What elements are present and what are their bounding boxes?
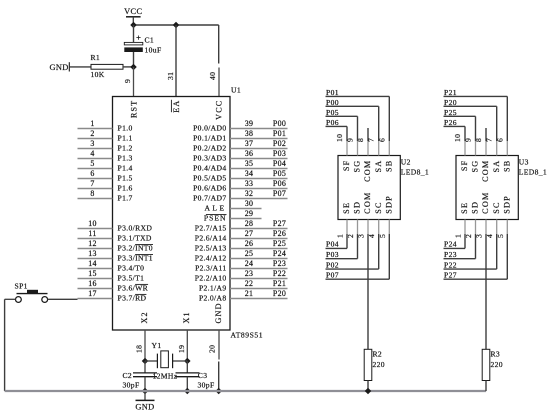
svg-text:P0.7/AD7: P0.7/AD7 [193, 194, 226, 203]
svg-text:10K: 10K [91, 70, 105, 79]
capacitor C3 [176, 372, 200, 374]
wire R1 to RST node [123, 66, 134, 68]
wire VCC rail horizontal [134, 24, 219, 26]
svg-text:37: 37 [245, 139, 254, 148]
pin 12 P3.2/INT0 lead [78, 248, 113, 250]
svg-text:36: 36 [245, 149, 254, 158]
svg-text:20: 20 [208, 345, 217, 353]
svg-text:P27: P27 [444, 270, 457, 279]
svg-text:COM: COM [363, 192, 372, 214]
7seg display U2 LED8_1 body [338, 156, 400, 220]
junction X2 node [142, 358, 149, 365]
wire COM stub top (U3) [485, 128, 487, 141]
pin lead top 6 (U2) [388, 141, 390, 156]
svg-text:P2.1/A9: P2.1/A9 [199, 284, 227, 293]
svg-text:SC: SC [492, 201, 501, 213]
wire VCC node to C1 [133, 25, 135, 42]
junction RST node [130, 64, 137, 71]
svg-text:C2: C2 [123, 371, 133, 380]
junction C3/bus [184, 388, 191, 395]
pin 15 P3.5/T1 lead [78, 278, 113, 280]
svg-text:P1.0: P1.0 [118, 124, 133, 133]
pin 26 P2.5/A13 lead [230, 248, 288, 250]
svg-text:34: 34 [245, 169, 254, 178]
svg-text:SF: SF [342, 160, 351, 172]
svg-text:P2.4/A12: P2.4/A12 [195, 254, 227, 263]
svg-text:1: 1 [336, 234, 345, 238]
pin lead bottom 1 (U2) [346, 220, 348, 235]
wire net P24 [444, 247, 466, 249]
pin 35 P0.4/AD4 lead [230, 168, 288, 170]
svg-text:GND: GND [50, 63, 69, 72]
svg-text:P0.3/AD3: P0.3/AD3 [193, 154, 226, 163]
pin lead bottom 3 (U2) [367, 220, 369, 235]
svg-text:COM: COM [363, 160, 372, 182]
pin 38 P0.1/AD1 lead [230, 138, 288, 140]
pin 39 P0.0/AD0 lead [230, 128, 288, 130]
pin 24 P2.3/A11 lead [230, 268, 288, 270]
svg-text:SD: SD [471, 201, 480, 214]
pin 32 P0.7/AD7 lead [230, 198, 288, 200]
svg-text:25: 25 [245, 249, 254, 258]
svg-text:Y1: Y1 [152, 341, 162, 350]
pin 11 P3.1/TXD lead [78, 238, 113, 240]
pin 13 P3.3/INT1 lead [78, 258, 113, 260]
svg-text:31: 31 [166, 72, 175, 80]
svg-text:4: 4 [90, 149, 94, 158]
7seg display U3 LED8_1 body [456, 156, 518, 220]
svg-text:R2: R2 [373, 350, 383, 359]
resistor R3 [482, 349, 490, 380]
pin 37 P0.2/AD2 lead [230, 148, 288, 150]
svg-text:P3.5/T1: P3.5/T1 [118, 274, 145, 283]
svg-text:P25: P25 [273, 239, 286, 248]
svg-text:19: 19 [177, 345, 186, 353]
wire COM bottom to resistor (U2) [367, 234, 369, 349]
pin 30 ALE lead [230, 208, 262, 210]
svg-text:33: 33 [245, 179, 254, 188]
pin lead bottom 5 (U3) [506, 220, 508, 235]
pin 36 P0.3/AD3 lead [230, 158, 288, 160]
pin 4 P1.3 lead [78, 158, 113, 160]
wire net P03 [326, 258, 358, 260]
svg-text:P1.5: P1.5 [118, 174, 133, 183]
pin 23 P2.2/A10 lead [230, 278, 288, 280]
svg-text:P0.0/AD0: P0.0/AD0 [193, 124, 226, 133]
svg-text:13: 13 [88, 249, 97, 258]
svg-text:23: 23 [245, 269, 254, 278]
svg-text:P1.1: P1.1 [118, 134, 133, 143]
svg-text:VCC: VCC [215, 100, 224, 120]
svg-text:SA: SA [374, 160, 383, 173]
svg-text:220: 220 [373, 360, 385, 369]
pin 2 P1.1 lead [78, 138, 113, 140]
wire X1 to C3 [186, 361, 188, 373]
pin 3 P1.2 lead [78, 148, 113, 150]
svg-text:P1.7: P1.7 [118, 194, 133, 203]
svg-text:SE: SE [460, 202, 469, 214]
svg-text:P07: P07 [273, 189, 286, 198]
svg-text:SD: SD [353, 201, 362, 214]
svg-text:P3.3/INT1: P3.3/INT1 [118, 254, 153, 263]
pin lead top 8 (U2) [367, 141, 369, 156]
svg-text:X1: X1 [182, 311, 191, 323]
svg-text:GND: GND [135, 403, 154, 412]
svg-text:COM: COM [481, 192, 490, 214]
resistor R2 [364, 349, 372, 380]
junction R2/bus [365, 388, 372, 395]
wire C1 to RST node [133, 52, 135, 67]
svg-text:LED8_1: LED8_1 [401, 167, 429, 176]
junction C2/bus [142, 388, 149, 395]
svg-text:14: 14 [88, 259, 97, 268]
pin 20 GND lead [218, 330, 220, 360]
svg-text:30pF: 30pF [198, 380, 215, 389]
pin 22 P2.1/A9 lead [230, 288, 288, 290]
pin 25 P2.4/A12 lead [230, 258, 288, 260]
wire SP1 to pin17 [48, 298, 78, 300]
svg-text:220: 220 [491, 360, 503, 369]
wire net P20 [444, 105, 497, 107]
pin lead bottom 3 (U3) [485, 220, 487, 235]
svg-text:RST: RST [129, 100, 138, 118]
wire net P02 [326, 268, 379, 270]
wire net P26 [444, 125, 466, 127]
svg-text:30pF: 30pF [123, 380, 140, 389]
pin 28 P2.7/A15 lead [230, 228, 288, 230]
pin lead bottom 2 (U3) [475, 220, 477, 235]
svg-text:P2.7/A15: P2.7/A15 [195, 224, 227, 233]
svg-text:VCC: VCC [124, 7, 142, 16]
svg-text:SG: SG [353, 160, 362, 173]
svg-text:6: 6 [90, 169, 94, 178]
pin 5 P1.4 lead [78, 168, 113, 170]
pin lead bottom 2 (U2) [357, 220, 359, 235]
wire X2 to crystal [145, 360, 157, 362]
wire VCC pin 40 vertical [218, 25, 220, 64]
svg-text:P3.2/INT0: P3.2/INT0 [118, 244, 153, 253]
svg-text:10: 10 [88, 219, 97, 228]
svg-text:P21: P21 [273, 279, 286, 288]
svg-text:P1.6: P1.6 [118, 184, 133, 193]
pin 9 RST lead [133, 67, 135, 97]
svg-text:P3.1/TXD: P3.1/TXD [118, 234, 152, 243]
pin 6 P1.5 lead [78, 178, 113, 180]
svg-text:COM: COM [481, 160, 490, 182]
svg-text:P23: P23 [444, 250, 457, 259]
svg-text:10: 10 [335, 134, 344, 142]
svg-text:P0.6/AD6: P0.6/AD6 [193, 184, 226, 193]
svg-text:32: 32 [245, 189, 254, 198]
svg-text:SB: SB [503, 160, 512, 172]
svg-text:P02: P02 [326, 260, 339, 269]
wire X2 to C2 [144, 361, 146, 373]
svg-text:P07: P07 [326, 270, 339, 279]
svg-text:P20: P20 [273, 289, 286, 298]
svg-text:40: 40 [208, 72, 217, 80]
svg-text:P1.3: P1.3 [118, 154, 133, 163]
pin 19 X1 lead [186, 330, 188, 361]
wire pin20 to ground bus [218, 362, 220, 392]
svg-text:SE: SE [342, 202, 351, 214]
svg-text:SA: SA [492, 160, 501, 173]
svg-text:8: 8 [90, 189, 94, 198]
svg-text:C3: C3 [198, 371, 208, 380]
wire crystal to X1 [173, 360, 187, 362]
pin 27 P2.6/A14 lead [230, 238, 288, 240]
svg-text:P2.2/A10: P2.2/A10 [195, 274, 227, 283]
capacitor C2 [133, 372, 157, 374]
svg-text:P24: P24 [444, 240, 457, 249]
junction at VCC/C1 node [130, 22, 137, 29]
wire net P01 [326, 95, 390, 97]
junction at EA branch [173, 22, 180, 29]
svg-text:U2: U2 [401, 157, 411, 166]
svg-text:ALE: ALE [205, 204, 227, 213]
svg-text:P2.6/A14: P2.6/A14 [195, 234, 227, 243]
wire net P00 [326, 105, 379, 107]
svg-text:35: 35 [245, 159, 254, 168]
svg-text:P3.6/WR: P3.6/WR [118, 284, 149, 293]
svg-text:39: 39 [245, 119, 254, 128]
svg-text:P27: P27 [273, 219, 286, 228]
svg-text:P22: P22 [273, 269, 286, 278]
svg-text:P2.3/A11: P2.3/A11 [195, 264, 226, 273]
svg-text:P3.7/RD: P3.7/RD [118, 294, 147, 303]
svg-text:C1: C1 [145, 36, 155, 45]
pin 17 P3.7/RD lead [78, 298, 113, 300]
svg-text:SF: SF [460, 160, 469, 172]
wire SP1 left down [5, 298, 16, 300]
wire net P23 [444, 258, 476, 260]
wire C2 to bus [144, 377, 146, 391]
svg-text:1: 1 [454, 234, 463, 238]
svg-text:P1.2: P1.2 [118, 144, 133, 153]
svg-text:P04: P04 [273, 159, 286, 168]
svg-text:P1.4: P1.4 [118, 164, 133, 173]
wire GND to R1 [69, 66, 91, 68]
svg-text:P04: P04 [326, 240, 339, 249]
svg-text:1: 1 [90, 119, 94, 128]
pin lead bottom 4 (U3) [496, 220, 498, 235]
svg-text:R3: R3 [491, 350, 501, 359]
svg-text:P2.0/A8: P2.0/A8 [199, 294, 227, 303]
pin 8 P1.7 lead [78, 198, 113, 200]
svg-text:10: 10 [453, 134, 462, 142]
pin 21 P2.0/A8 lead [230, 298, 288, 300]
pin lead top 7 (U3) [496, 141, 498, 156]
svg-text:3: 3 [90, 139, 94, 148]
svg-text:2: 2 [90, 129, 94, 138]
svg-text:LED8_1: LED8_1 [519, 167, 547, 176]
junction pin20/bus [215, 388, 222, 395]
svg-text:SC: SC [374, 201, 383, 213]
svg-text:P03: P03 [273, 149, 286, 158]
svg-text:P06: P06 [273, 179, 286, 188]
svg-text:18: 18 [135, 345, 144, 353]
ground bus wire [5, 390, 487, 392]
pin 33 P0.6/AD6 lead [230, 188, 288, 190]
pin lead bottom 1 (U3) [464, 220, 466, 235]
pin 14 P3.4/T0 lead [78, 268, 113, 270]
wire net P06 [326, 125, 348, 127]
svg-text:24: 24 [245, 259, 254, 268]
pin 34 P0.5/AD5 lead [230, 178, 288, 180]
crystal Y1 [156, 354, 158, 369]
wire R3 to bus [485, 381, 487, 392]
svg-text:15: 15 [88, 269, 97, 278]
svg-text:X2: X2 [140, 311, 149, 323]
svg-text:P02: P02 [273, 139, 286, 148]
svg-text:10uF: 10uF [145, 46, 162, 55]
svg-text:P26: P26 [273, 229, 286, 238]
svg-text:38: 38 [245, 129, 254, 138]
svg-text:U3: U3 [519, 157, 529, 166]
svg-text:22: 22 [245, 279, 254, 288]
svg-text:27: 27 [245, 229, 254, 238]
svg-text:P05: P05 [273, 169, 286, 178]
svg-text:17: 17 [88, 289, 97, 298]
svg-text:P0.2/AD2: P0.2/AD2 [193, 144, 226, 153]
svg-text:P03: P03 [326, 250, 339, 259]
wire net P22 [444, 268, 497, 270]
svg-text:R1: R1 [91, 53, 101, 62]
svg-text:29: 29 [245, 209, 254, 218]
pin lead top 10 (U2) [346, 141, 348, 156]
IC U1 AT89S51 body [113, 97, 231, 331]
pin lead top 9 (U3) [475, 141, 477, 156]
svg-text:P24: P24 [273, 249, 286, 258]
wire net P27 [444, 278, 508, 280]
svg-text:P0.1/AD1: P0.1/AD1 [193, 134, 226, 143]
svg-text:16: 16 [88, 279, 97, 288]
svg-text:P3.4/T0: P3.4/T0 [118, 264, 145, 273]
capacitor C1 10uF polarized [124, 42, 143, 45]
resistor R1 [91, 64, 123, 69]
pin lead bottom 5 (U2) [388, 220, 390, 235]
svg-text:GND: GND [214, 302, 223, 323]
svg-text:11: 11 [88, 229, 96, 238]
svg-text:12: 12 [88, 239, 97, 248]
svg-text:P22: P22 [444, 260, 457, 269]
svg-text:21: 21 [245, 289, 254, 298]
svg-text:28: 28 [245, 219, 254, 228]
wire R2 to bus [367, 381, 369, 392]
wire net P07 [326, 278, 390, 280]
svg-text:SDP: SDP [385, 195, 394, 214]
svg-text:30: 30 [245, 199, 254, 208]
svg-text:P00: P00 [273, 119, 286, 128]
svg-text:P3.0/RXD: P3.0/RXD [118, 224, 153, 233]
wire net P21 [444, 95, 508, 97]
wire net P04 [326, 247, 348, 249]
ground symbol [144, 391, 146, 400]
svg-text:9: 9 [123, 79, 132, 83]
svg-text:26: 26 [245, 239, 254, 248]
pin 1 P1.0 lead [78, 128, 113, 130]
svg-text:U1: U1 [231, 86, 241, 95]
svg-text:SB: SB [385, 160, 394, 172]
pin lead top 7 (U2) [378, 141, 380, 156]
wire COM bottom to resistor (U3) [485, 234, 487, 349]
svg-text:P0.5/AD5: P0.5/AD5 [193, 174, 226, 183]
svg-text:SG: SG [471, 160, 480, 173]
pin lead top 6 (U3) [506, 141, 508, 156]
svg-text:PSEN: PSEN [204, 214, 227, 223]
svg-text:P01: P01 [273, 129, 286, 138]
junction X1 node [184, 358, 191, 365]
svg-text:P23: P23 [273, 259, 286, 268]
pin lead top 10 (U3) [464, 141, 466, 156]
svg-text:5: 5 [90, 159, 94, 168]
pin 18 X2 lead [144, 330, 146, 361]
pin 16 P3.6/WR lead [78, 288, 113, 290]
wire COM stub top (U2) [367, 128, 369, 141]
svg-text:7: 7 [90, 179, 94, 188]
svg-text:P2.5/A13: P2.5/A13 [195, 244, 227, 253]
wire net P05 [326, 115, 358, 117]
svg-text:SDP: SDP [503, 195, 512, 214]
svg-text:P0.4/AD4: P0.4/AD4 [193, 164, 226, 173]
pin lead top 9 (U2) [357, 141, 359, 156]
pin lead bottom 4 (U2) [378, 220, 380, 235]
wire EA pin 31 vertical [175, 25, 177, 97]
pin 29 PSEN lead [230, 218, 262, 220]
svg-text:SP1: SP1 [15, 281, 28, 290]
pin lead top 8 (U3) [485, 141, 487, 156]
pin 10 P3.0/RXD lead [78, 228, 113, 230]
pin 7 P1.6 lead [78, 188, 113, 190]
wire C3 to bus [186, 377, 188, 391]
svg-text:AT89S51: AT89S51 [231, 331, 264, 340]
wire net P25 [444, 115, 476, 117]
svg-text:EA: EA [172, 100, 181, 113]
